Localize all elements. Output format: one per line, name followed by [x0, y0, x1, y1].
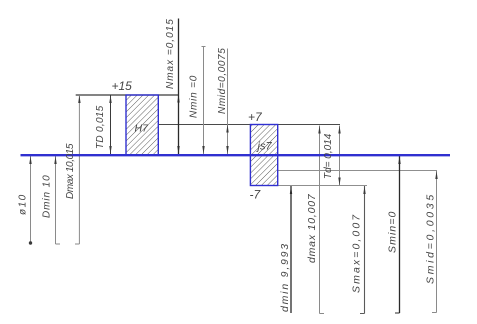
svg-text:Nmax =0,015: Nmax =0,015 [165, 18, 176, 89]
dimension line Nmin [203, 47, 205, 154]
dimension line Nmid [227, 49, 229, 155]
dimension line Smid [436, 171, 438, 313]
dimension line dmin [290, 186, 292, 313]
dimension line Dmax [78, 95, 80, 244]
svg-text:Td= 0,014: Td= 0,014 [323, 133, 334, 179]
svg-text:Dmax 10,015: Dmax 10,015 [65, 143, 76, 199]
zone js7 border [250, 125, 277, 186]
svg-text:+15: +15 [112, 79, 133, 93]
svg-text:Smax=0,007: Smax=0,007 [351, 213, 363, 293]
svg-text:Nmid=0,0075: Nmid=0,0075 [217, 48, 228, 114]
svg-text:Smid=0,0035: Smid=0,0035 [425, 192, 437, 284]
zone H7 border [126, 95, 158, 155]
dimension line diameter o10 [30, 156, 32, 244]
tolerance zone H7 (hatched fill) [126, 95, 158, 155]
tolerance zone js7 (hatched fill) [250, 125, 277, 186]
svg-text:ø10: ø10 [18, 193, 29, 215]
extension line Smid level [278, 170, 437, 172]
svg-text:dmax 10,007: dmax 10,007 [306, 193, 318, 263]
svg-text:-7: -7 [250, 188, 262, 202]
dimension line Smin [399, 156, 401, 313]
zero line [21, 154, 451, 156]
extension line +15 level [76, 94, 179, 96]
dimension line Nmax [178, 19, 180, 155]
svg-text:Dmin 10: Dmin 10 [42, 174, 53, 218]
svg-text:Nmin =0: Nmin =0 [189, 75, 200, 118]
dimension line Smax [364, 186, 366, 314]
extension line -7 level [278, 185, 367, 187]
extension line +7 / mid level [158, 124, 340, 126]
dimension line dmax [319, 126, 321, 314]
dimension line Td [339, 126, 341, 186]
svg-text:H7: H7 [135, 123, 150, 135]
dimension line TD [110, 95, 112, 154]
svg-text:Smin=0: Smin=0 [387, 211, 399, 254]
dimension line Dmin [55, 156, 57, 244]
svg-text:dmin 9,993: dmin 9,993 [279, 242, 291, 312]
svg-text:js7: js7 [256, 141, 273, 153]
svg-text:TD 0,015: TD 0,015 [95, 105, 106, 149]
svg-text:+7: +7 [248, 110, 263, 124]
